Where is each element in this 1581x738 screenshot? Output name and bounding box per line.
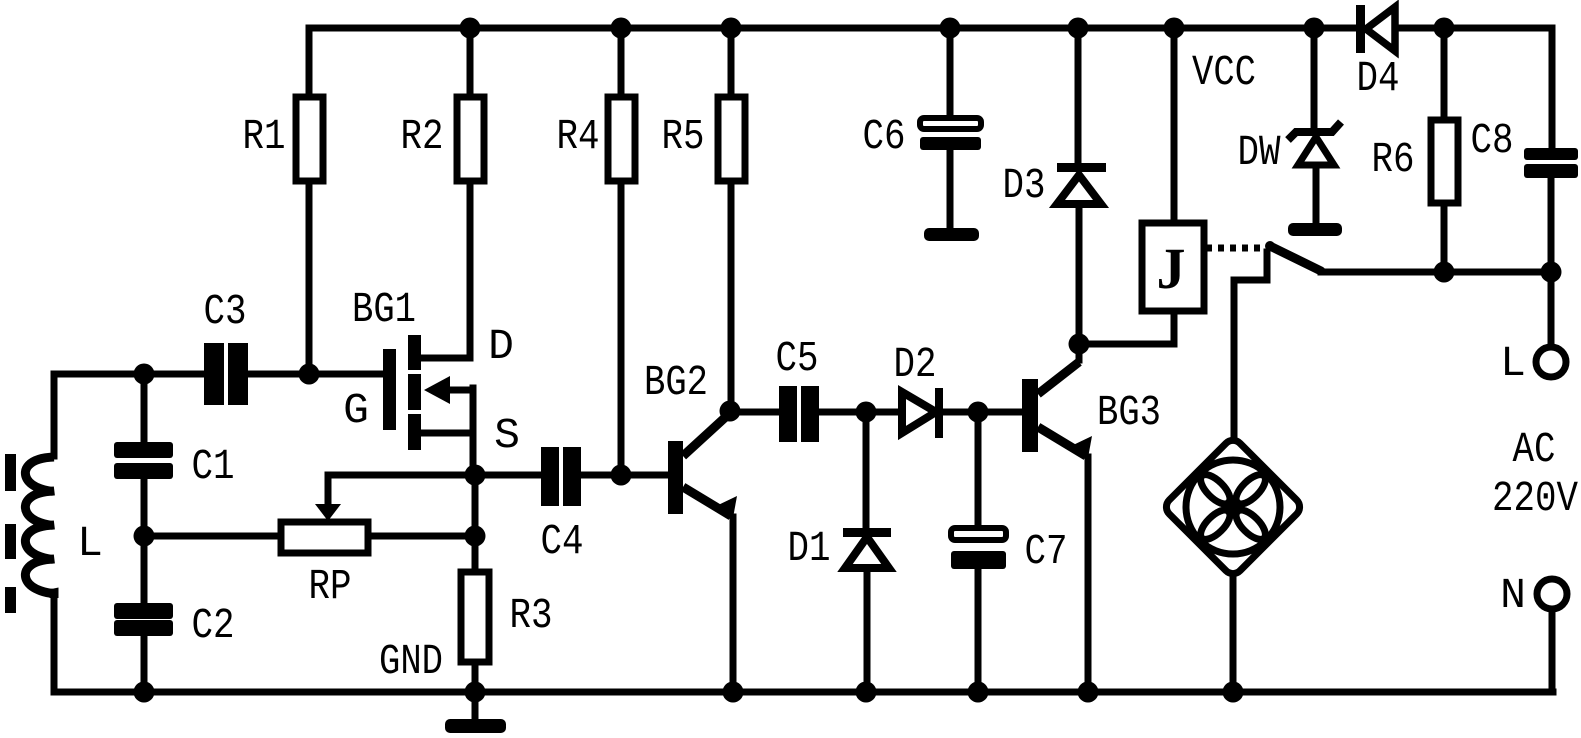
svg-text:C6: C6	[863, 112, 906, 161]
svg-text:R5: R5	[662, 112, 705, 161]
svg-text:GND: GND	[379, 637, 443, 686]
svg-text:DW: DW	[1238, 128, 1281, 177]
svg-text:R1: R1	[243, 112, 286, 161]
svg-text:C8: C8	[1471, 116, 1514, 165]
svg-text:AC: AC	[1513, 425, 1556, 474]
svg-text:L: L	[77, 519, 103, 568]
svg-text:D2: D2	[894, 340, 937, 389]
svg-text:C5: C5	[776, 334, 819, 383]
svg-text:D3: D3	[1003, 161, 1046, 210]
svg-text:RP: RP	[309, 562, 352, 611]
svg-text:BG1: BG1	[352, 285, 416, 334]
svg-text:G: G	[343, 386, 369, 435]
svg-text:C3: C3	[204, 287, 247, 336]
svg-text:N: N	[1500, 571, 1526, 620]
svg-text:BG3: BG3	[1097, 388, 1161, 437]
svg-text:VCC: VCC	[1192, 48, 1256, 97]
svg-text:R4: R4	[557, 112, 600, 161]
svg-text:220V: 220V	[1492, 474, 1578, 523]
svg-text:C7: C7	[1025, 527, 1068, 576]
svg-text:D: D	[488, 322, 514, 371]
svg-text:L: L	[1500, 339, 1526, 388]
svg-text:J: J	[1157, 236, 1186, 301]
svg-text:R3: R3	[510, 591, 553, 640]
svg-text:R2: R2	[401, 112, 444, 161]
svg-text:R6: R6	[1372, 135, 1415, 184]
svg-text:C1: C1	[192, 442, 235, 491]
svg-text:S: S	[494, 411, 520, 460]
svg-text:C2: C2	[192, 601, 235, 650]
svg-text:D1: D1	[788, 524, 831, 573]
svg-text:BG2: BG2	[644, 358, 708, 407]
svg-text:C4: C4	[541, 517, 584, 566]
svg-text:D4: D4	[1357, 54, 1400, 103]
